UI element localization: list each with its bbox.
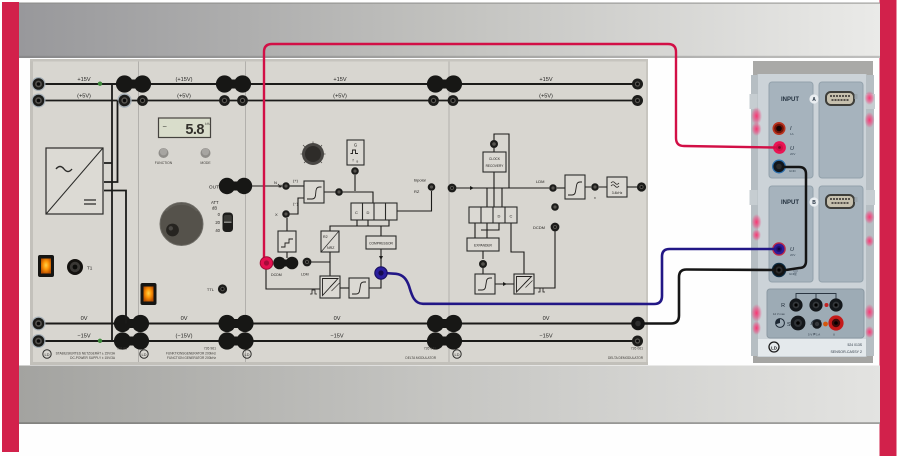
wire quantizer chain	[286, 218, 288, 258]
module: function generator	[140, 118, 252, 360]
svg-text:EXPANDER: EXPANDER	[474, 244, 493, 248]
wire from +5V to converter	[104, 101, 118, 183]
svg-text:NRZ: NRZ	[327, 246, 335, 250]
rail +5V	[38, 100, 638, 102]
black jumper GND A to GND B on CASSY	[783, 167, 806, 270]
svg-text:GND: GND	[789, 272, 797, 276]
svg-text:LDM: LDM	[301, 273, 309, 277]
socket I input A	[773, 122, 786, 135]
wire sampler to bipolar RZ out	[397, 191, 432, 211]
wire sampler to expander	[475, 223, 499, 238]
svg-text:12 V max: 12 V max	[773, 312, 785, 316]
brand strip background	[758, 339, 866, 356]
wire clock to sampler	[354, 175, 356, 191]
black plug on 0V rail	[631, 317, 645, 331]
socket U input A (red cable plugged)	[773, 141, 786, 154]
regenerator box	[565, 175, 585, 199]
left terminal sockets	[32, 77, 46, 348]
svg-text:20: 20	[215, 220, 220, 225]
svg-text:kHz: kHz	[205, 122, 211, 126]
level knob	[301, 142, 326, 166]
svg-text:B: B	[357, 160, 359, 164]
clock generator box	[347, 140, 364, 165]
svg-text:LD: LD	[454, 352, 459, 357]
svg-text:(−): (−)	[293, 201, 299, 206]
svg-text:D: D	[498, 214, 501, 219]
svg-text:FUNCTION: FUNCTION	[155, 161, 173, 165]
square wave mark	[310, 290, 317, 294]
svg-text:D: D	[367, 210, 370, 215]
right frame bar	[880, 0, 897, 456]
R2 NRZ box	[321, 231, 339, 252]
red source socket	[828, 315, 843, 330]
svg-text:A: A	[812, 97, 816, 103]
relay socket 1	[789, 298, 802, 311]
wire OUT to (+) input	[250, 185, 282, 187]
LDM input socket	[448, 184, 457, 193]
svg-text:LD: LD	[44, 352, 49, 357]
svg-text:T1: T1	[87, 266, 93, 271]
rail 0V	[38, 323, 638, 325]
LED glows	[751, 91, 875, 338]
bridging plug 0V seam1	[114, 315, 149, 332]
clock socket	[490, 140, 498, 148]
svg-text:LD: LD	[244, 352, 249, 357]
red dot	[825, 303, 829, 307]
svg-text:726 041: 726 041	[424, 347, 436, 351]
relay / source section panel	[767, 289, 864, 338]
wire C box to integrator	[511, 223, 524, 274]
svg-text:(+5V): (+5V)	[333, 94, 347, 100]
svg-text:OUT: OUT	[209, 185, 219, 191]
orange dot	[823, 322, 828, 327]
svg-text:B: B	[812, 200, 816, 206]
svg-text:1A: 1A	[790, 132, 794, 136]
bottom shelf	[19, 366, 880, 425]
svg-text:0V: 0V	[81, 316, 88, 322]
wire from +15V through to -15V	[104, 84, 112, 341]
svg-text:LD: LD	[771, 345, 777, 350]
socket GND input B (black cable plugged)	[772, 263, 785, 276]
ATT attenuator slider	[211, 200, 233, 233]
slope box	[475, 274, 495, 294]
svg-text:MODE: MODE	[200, 161, 211, 165]
wire LDM input line	[456, 187, 549, 189]
svg-text:0V: 0V	[334, 316, 341, 322]
brand strip	[769, 342, 863, 354]
bridging plug +15V seam1	[114, 75, 462, 349]
bridging plug -15V seam1	[114, 332, 149, 349]
D-sub connector A	[826, 92, 858, 105]
input B left panel	[769, 186, 813, 282]
svg-text:5 V ⇌ 1 A: 5 V ⇌ 1 A	[808, 333, 820, 337]
trim socket	[811, 319, 822, 329]
relay socket 3	[829, 298, 842, 311]
wire (-) input	[289, 198, 304, 214]
svg-text:G: G	[354, 143, 357, 148]
ground logo	[243, 350, 251, 358]
wire converter to 0V	[104, 191, 126, 324]
svg-text:COMPRESSOR: COMPRESSOR	[369, 242, 393, 246]
svg-text:20V: 20V	[790, 152, 795, 156]
svg-text:C: C	[355, 210, 358, 215]
top cap	[753, 61, 873, 75]
wire DCDM feedback to integrator	[266, 269, 320, 289]
svg-text:+15V: +15V	[333, 77, 346, 83]
svg-text:5.8: 5.8	[185, 122, 204, 138]
integrator triangle box	[514, 274, 534, 294]
clock recovery box	[483, 152, 506, 172]
LCD display	[159, 118, 212, 138]
svg-text:dB: dB	[212, 206, 217, 211]
bridging plug -15V seam2	[218, 332, 253, 349]
rail labels	[77, 77, 553, 340]
svg-text:GND: GND	[789, 169, 797, 173]
svg-text:SENSOR-CASSY 2: SENSOR-CASSY 2	[831, 350, 863, 354]
wire expander to slope box	[482, 251, 484, 274]
svg-text:−15V: −15V	[330, 334, 343, 340]
svg-text:(+5V): (+5V)	[77, 94, 91, 100]
wire into regenerator	[557, 187, 565, 189]
relay socket 2	[809, 298, 822, 311]
wire NRZ to LDM and integrator	[311, 252, 330, 276]
svg-text:−15V: −15V	[77, 334, 90, 340]
input A right panel	[819, 82, 863, 178]
sampler C D boxes	[351, 203, 397, 220]
blue cable modulator output to CASSY input B U	[384, 249, 775, 304]
bridging plug 0V seam3	[427, 315, 462, 332]
rail +15V	[38, 83, 638, 85]
mains switch with orange lamp	[38, 255, 54, 277]
square wave mark	[538, 288, 545, 292]
DCDM black bridging plug	[273, 257, 298, 270]
svg-text:bipolar: bipolar	[414, 178, 427, 183]
timer S	[776, 319, 785, 328]
svg-text:DCDM: DCDM	[271, 273, 282, 277]
svg-text:ATT: ATT	[211, 200, 219, 205]
comparator box with sigmoid	[304, 181, 324, 203]
input B right panel	[819, 186, 863, 282]
wire regenerator to LP filter	[585, 186, 607, 188]
left frame bar	[2, 2, 19, 452]
svg-text:3.4kHz: 3.4kHz	[612, 191, 623, 195]
input A left panel	[769, 82, 813, 178]
blue plug on modulator	[375, 267, 387, 279]
svg-text:LDM: LDM	[536, 179, 544, 184]
left mounting rail	[751, 75, 758, 356]
svg-text:S: S	[787, 322, 791, 328]
svg-text:N: N	[274, 180, 277, 185]
right mounting rail	[866, 75, 874, 356]
spare socket	[551, 203, 559, 211]
svg-text:DELTA MODULATOR: DELTA MODULATOR	[405, 356, 436, 360]
bottom cap	[753, 355, 873, 363]
sampler D C boxes	[469, 207, 517, 223]
wire compressor to blue jack	[369, 248, 381, 288]
red plug on DCDM jack	[260, 257, 273, 270]
Sensor-CASSY unit	[750, 61, 876, 363]
x socket	[591, 183, 599, 191]
svg-text:X: X	[275, 212, 278, 217]
bridging plug +15V seam3	[427, 75, 462, 92]
black cable 0V to CASSY input B ground	[638, 270, 775, 324]
svg-text:726 061: 726 061	[631, 347, 643, 351]
wire sampler bottom bus	[330, 220, 389, 236]
svg-text:R: R	[781, 303, 785, 309]
quantizer box	[278, 231, 296, 252]
svg-text:R2: R2	[323, 235, 328, 239]
top shelf	[19, 3, 880, 59]
bridging plug 0V seam2	[218, 315, 253, 332]
integrator triangle box	[320, 276, 340, 298]
socket below expander	[479, 260, 487, 268]
expander box	[467, 238, 499, 251]
green jumper marks	[98, 82, 102, 86]
DCDM socket	[551, 223, 560, 232]
LDM socket	[303, 258, 312, 267]
svg-text:726 961: 726 961	[204, 347, 216, 351]
svg-text:(+15V): (+15V)	[176, 77, 193, 83]
FUNCTION button	[155, 148, 173, 165]
wire comparator out to sampler	[324, 192, 373, 203]
svg-text:INPUT: INPUT	[781, 97, 799, 103]
panel frame	[30, 59, 648, 365]
svg-text:−15V: −15V	[539, 334, 552, 340]
potentiometer T1	[67, 259, 93, 275]
wire DCDM to integrator	[534, 231, 555, 288]
svg-text:+15V: +15V	[77, 77, 90, 83]
body	[757, 74, 867, 357]
clock socket	[351, 167, 359, 175]
wire (+) to comparator	[289, 185, 304, 187]
ground logo	[43, 350, 51, 358]
svg-text:DELTA DEMODULATOR: DELTA DEMODULATOR	[608, 356, 644, 360]
+5V seam socket pairs	[117, 93, 458, 107]
source socket big	[791, 316, 806, 331]
frequency knob	[160, 203, 203, 246]
svg-text:+15V: +15V	[539, 77, 552, 83]
wire LP to out	[627, 186, 637, 188]
MODE button	[200, 148, 211, 165]
LDM socket	[549, 184, 557, 192]
red cable DCDM to CASSY input A U	[264, 44, 775, 258]
ground logo	[453, 350, 461, 358]
svg-text:(+5V): (+5V)	[177, 94, 191, 100]
svg-text:524 013S: 524 013S	[847, 343, 862, 347]
svg-text:0V: 0V	[543, 316, 550, 322]
module: delta modulator	[243, 140, 437, 360]
comparator out socket	[335, 188, 343, 196]
svg-text:TTL: TTL	[207, 287, 215, 292]
svg-text:LD: LD	[141, 352, 146, 357]
demodulator output socket	[637, 182, 646, 191]
svg-text:DCDM: DCDM	[533, 225, 545, 230]
svg-text:(−15V): (−15V)	[176, 334, 193, 340]
svg-text:C: C	[510, 214, 513, 219]
svg-text:INPUT: INPUT	[781, 200, 799, 206]
power switch with orange lamp	[141, 283, 157, 305]
svg-text:(+5V): (+5V)	[539, 94, 553, 100]
compressor box	[366, 236, 396, 249]
D-sub connector B	[826, 195, 858, 208]
right terminal sockets of demodulator	[632, 79, 643, 347]
bridging plug -15V seam3	[427, 332, 462, 349]
svg-text:0V: 0V	[181, 316, 188, 322]
svg-text:40: 40	[215, 228, 220, 233]
svg-text:FUNCTION GENERATOR 200kHz: FUNCTION GENERATOR 200kHz	[167, 356, 216, 360]
AC/DC converter symbol	[46, 148, 103, 214]
bracket over R sockets	[796, 294, 836, 300]
ground logo	[140, 350, 148, 358]
slope limiter box	[349, 278, 369, 298]
svg-text:CLOCK: CLOCK	[489, 157, 501, 161]
socket GND input A	[773, 160, 786, 173]
wire integrator to slope box	[340, 287, 349, 289]
svg-text:RZ: RZ	[414, 189, 420, 194]
svg-text:20V: 20V	[790, 253, 795, 257]
wire slope to integrator	[495, 283, 514, 285]
bridging plug +15V seam2	[216, 75, 251, 92]
svg-text:x: x	[594, 196, 596, 200]
power rails	[38, 84, 638, 341]
module: delta demodulator	[448, 134, 647, 360]
module: DC power supply	[38, 82, 127, 360]
svg-text:726 86: 726 86	[117, 347, 127, 351]
svg-text:DC-POWER SUPPLY ± 15V/3A: DC-POWER SUPPLY ± 15V/3A	[70, 356, 116, 360]
svg-text:(+): (+)	[293, 178, 299, 183]
svg-text:~: ~	[163, 122, 168, 131]
rail -15V	[38, 340, 638, 342]
socket U input B (blue cable plugged)	[772, 242, 786, 256]
wire clock recovery tap	[487, 134, 509, 207]
OUT bridging plug	[219, 178, 252, 194]
svg-text:U: U	[833, 333, 835, 337]
low pass filter box	[607, 177, 627, 197]
svg-text:RECOVERY: RECOVERY	[486, 164, 505, 168]
